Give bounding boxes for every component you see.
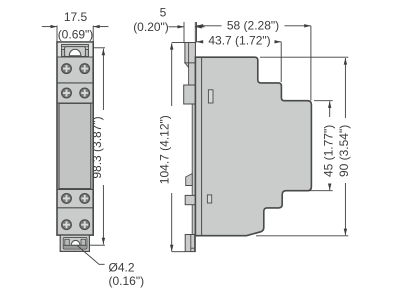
dimension 45 text <box>322 125 336 177</box>
screw A1 <box>62 64 72 74</box>
screw B1 <box>62 88 72 98</box>
side view lower block <box>185 195 201 204</box>
dimension 58 arrows <box>197 24 311 27</box>
dimension 98.3 line <box>102 49 104 245</box>
svg-text:(0.20"): (0.20") <box>133 20 169 34</box>
dimension 45 arrows <box>328 101 331 190</box>
svg-text:(0.69"): (0.69") <box>58 27 94 41</box>
svg-text:43.7 (1.72"): 43.7 (1.72") <box>208 34 270 48</box>
side view slot upper <box>208 90 213 103</box>
dimension 45 lines <box>329 101 331 190</box>
front top clip body <box>65 47 86 57</box>
screw D1 <box>62 220 72 230</box>
svg-text:Ø4.2: Ø4.2 <box>109 260 135 274</box>
dimension 104.7 arrows <box>170 43 173 252</box>
dimension 17.5 arrows <box>51 25 100 28</box>
dimension 98.3 extension lines <box>89 48 105 245</box>
screw C1 <box>62 194 72 204</box>
dimension 90 extension lines <box>256 57 348 236</box>
dimension 5 lines <box>169 22 205 43</box>
front bottom clip slider line <box>63 245 87 247</box>
svg-text:17.5: 17.5 <box>64 10 88 24</box>
label diameter 4.2 <box>109 260 145 288</box>
dimension 90 lines <box>344 58 346 235</box>
screw C2 <box>80 194 90 204</box>
front bottom clip lugs <box>65 239 86 245</box>
screw B2 <box>80 88 90 98</box>
front view section lines <box>57 57 93 208</box>
front top clip hole <box>69 49 81 56</box>
screw A2 <box>80 64 90 74</box>
svg-text:90 (3.54"): 90 (3.54") <box>337 125 351 177</box>
svg-text:5: 5 <box>160 6 167 20</box>
leader diameter 4.2 <box>78 246 105 264</box>
svg-text:58 (2.28"): 58 (2.28") <box>227 18 279 32</box>
svg-text:(0.16"): (0.16") <box>109 274 145 288</box>
front top clip bar <box>62 45 89 57</box>
dimension 17.5 lines <box>42 26 109 43</box>
side view seam line <box>201 57 203 236</box>
front bottom clip hole <box>71 240 80 245</box>
side view barb <box>186 174 193 186</box>
dimension 43.7 arrows <box>197 40 282 43</box>
side view top tab <box>185 43 196 86</box>
dimension 43.7 text <box>208 34 270 48</box>
front top clip lugs <box>62 50 89 57</box>
side view slot lower <box>207 195 211 203</box>
dimension 104.7 lines <box>172 43 186 252</box>
side view flange plate <box>192 43 195 252</box>
side view bottom tab <box>185 235 194 252</box>
front view body <box>57 42 93 235</box>
dimension 58 text <box>227 18 279 32</box>
dimension 45 extension lines <box>308 101 333 191</box>
front view top clip cavity <box>58 43 93 57</box>
front bottom clip block <box>60 235 89 251</box>
dimension 5 arrows <box>178 25 202 28</box>
side view rail hook block <box>184 85 196 104</box>
svg-text:45 (1.77"): 45 (1.77") <box>322 125 336 177</box>
screw D2 <box>80 220 90 230</box>
svg-text:104.7 (4.12"): 104.7 (4.12") <box>158 115 172 184</box>
dimension 90 arrows <box>344 58 347 235</box>
dimension 98.3 text <box>90 116 104 178</box>
dimension 5 text <box>133 6 169 34</box>
dimension 90 text <box>337 125 351 177</box>
dimension 98.3 arrows <box>102 49 105 245</box>
dimension 58 lines <box>197 22 311 101</box>
dimension 104.7 text <box>158 115 172 184</box>
svg-text:98.3 (3.87"): 98.3 (3.87") <box>90 116 104 178</box>
front view face plate <box>59 103 91 188</box>
front bottom clip body <box>63 237 87 249</box>
dimension 43.7 lines <box>197 42 282 82</box>
side view body <box>195 57 311 236</box>
dimension 17.5 text <box>58 10 94 41</box>
